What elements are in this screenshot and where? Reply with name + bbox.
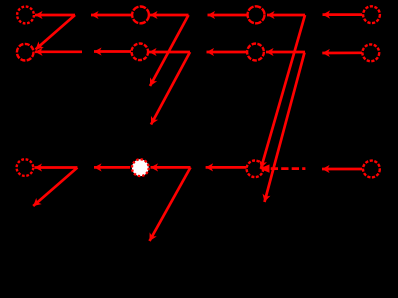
wire Z2 diagonal <box>33 168 77 207</box>
wire dashed arrowhead into K <box>259 164 269 172</box>
wire 7e horizontal into J <box>151 166 191 169</box>
node K (circle row3 col3) <box>247 161 264 178</box>
wire 7e diagonal <box>150 167 191 241</box>
wire arrow from E leftward <box>208 14 248 17</box>
node J (white filled circle row3 col2) <box>132 159 149 176</box>
wire 7c horizontal into E <box>267 14 305 17</box>
node F (circle row2 col3) <box>247 44 264 61</box>
wire arrow from F leftward <box>207 51 248 54</box>
wire 7d horizontal into F <box>266 51 305 54</box>
wire arrow from H leftward <box>322 51 362 54</box>
wire arrow from G leftward <box>323 13 363 16</box>
node E (circle row1 col3) <box>248 6 265 23</box>
node C (circle row1 col2) <box>132 7 149 24</box>
wire arrow from K leftward <box>206 166 247 169</box>
wire Z2 horizontal into I <box>35 166 78 169</box>
wire 7a diagonal <box>150 15 189 86</box>
wire 7c diagonal into K <box>261 15 305 168</box>
node G (circle row1 col4) <box>363 6 380 23</box>
wire 7b diagonal <box>151 52 190 125</box>
node D (circle row2 col2) <box>132 44 149 61</box>
node L (circle row3 col4) <box>363 161 380 178</box>
wire 7d diagonal <box>265 53 305 203</box>
wire Z1 tail row2 arrow into B <box>35 50 82 53</box>
wire arrow from J leftward <box>94 166 130 169</box>
wire 7a horizontal into C <box>150 14 189 17</box>
wire 7b horizontal into D <box>149 51 190 54</box>
wire arrow from C leftward <box>91 14 131 17</box>
wire arrow from D leftward <box>94 50 131 53</box>
node A (circle row1 col1) <box>17 7 34 24</box>
wire dashed segment <box>271 167 306 170</box>
wire Z1 horizontal into A <box>35 14 75 17</box>
node H (circle row2 col4) <box>362 44 379 61</box>
wire Z1 diagonal into B <box>36 15 76 50</box>
node I (circle row3 col1) <box>17 159 34 176</box>
wire arrow from L leftward <box>322 168 362 171</box>
node B (circle row2 col1) <box>17 44 34 61</box>
